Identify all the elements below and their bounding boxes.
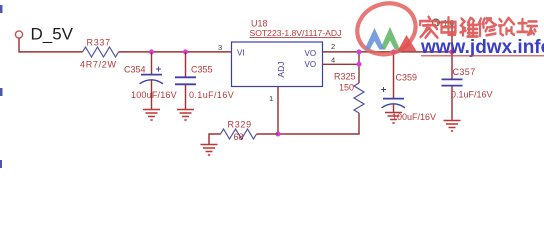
- junction pin2/R325: [357, 49, 362, 54]
- ground (C359): [385, 113, 402, 124]
- svg-text:C354: C354: [124, 65, 146, 75]
- capacitor C357: [442, 52, 493, 120]
- junction ADJ/R329/R325: [276, 132, 281, 137]
- svg-text:1: 1: [269, 94, 273, 103]
- char wei: [461, 18, 478, 37]
- char tan: [518, 19, 538, 35]
- svg-text:R325: R325: [334, 72, 356, 82]
- watermark logo W green chevron: [380, 27, 400, 50]
- wire VO pin 2 output rail: [323, 51, 455, 53]
- ground (C354): [143, 110, 160, 121]
- svg-text:www.jdwx.info: www.jdwx.info: [420, 37, 544, 58]
- svg-text:150: 150: [339, 83, 354, 93]
- svg-text:100uF/16V: 100uF/16V: [131, 90, 177, 100]
- wire up to D_1.8V terminal: [440, 23, 453, 52]
- char dian: [442, 17, 456, 34]
- sheet border zone marks (left edge): [0, 5, 3, 168]
- junction pin4: [357, 62, 362, 67]
- watermark underline: [421, 55, 544, 57]
- svg-text:U18: U18: [251, 19, 268, 29]
- watermark text 家电维修论坛 (stroke approximation): [420, 17, 537, 38]
- svg-text:0.1uF/16V: 0.1uF/16V: [189, 90, 234, 100]
- resistor R329: [221, 120, 257, 143]
- capacitor C355: [175, 52, 234, 109]
- wire R329 right lead to junction: [257, 133, 279, 135]
- svg-text:ADJ: ADJ: [276, 61, 286, 77]
- watermark logo W blue chevron: [365, 28, 385, 50]
- svg-text:0.1uF/16V: 0.1uF/16V: [451, 90, 493, 100]
- junction at C354: [149, 49, 154, 54]
- svg-text:SOT223-1.8V/1117-ADJ: SOT223-1.8V/1117-ADJ: [250, 28, 342, 38]
- svg-text:VO: VO: [305, 49, 317, 58]
- capacitor C354: [124, 52, 177, 109]
- svg-text:4: 4: [331, 56, 335, 65]
- svg-text:VO: VO: [305, 60, 317, 69]
- wire R329 left lead to ground: [209, 134, 221, 144]
- char xiu: [479, 19, 497, 36]
- resistor R325: [334, 72, 364, 114]
- junction at C359: [391, 49, 396, 54]
- wire ADJ pin down: [277, 87, 279, 135]
- wire pin4 junction down to R325: [358, 52, 360, 83]
- svg-text:R337: R337: [87, 37, 111, 47]
- resistor R337: [80, 37, 119, 69]
- svg-text:100uF/16V: 100uF/16V: [392, 112, 436, 122]
- watermark logo ring: [351, 0, 423, 62]
- char lun: [499, 18, 514, 35]
- capacitor C359: [381, 52, 436, 122]
- voltage regulator U18: [232, 19, 342, 87]
- ground (R329): [201, 145, 218, 156]
- svg-text:3: 3: [218, 43, 222, 52]
- svg-text:C359: C359: [396, 73, 418, 83]
- junction at C357 / output: [450, 49, 455, 54]
- svg-text:68: 68: [234, 132, 244, 142]
- net label D_1.8V (under watermark): [433, 19, 455, 28]
- wire VO pin 4: [323, 63, 360, 65]
- svg-text:VI: VI: [237, 49, 245, 58]
- svg-text:D_5V: D_5V: [31, 25, 74, 44]
- ground (C357): [444, 121, 461, 132]
- wire 5V rail from R337 to U18 pin 3: [119, 51, 232, 53]
- junction at C355: [183, 49, 188, 54]
- char jia: [420, 17, 438, 38]
- watermark logo red triangle: [398, 35, 417, 51]
- wire R325 bottom to ADJ junction: [278, 113, 359, 134]
- ground (C355): [177, 110, 194, 121]
- wire from D_5V terminal to R337: [19, 38, 83, 52]
- svg-text:R329: R329: [228, 120, 252, 130]
- node D_5V input terminal: [15, 31, 22, 38]
- svg-text:4R7/2W: 4R7/2W: [80, 60, 117, 70]
- svg-text:2: 2: [331, 42, 335, 51]
- svg-text:C355: C355: [191, 65, 213, 75]
- svg-text:C357: C357: [453, 67, 476, 77]
